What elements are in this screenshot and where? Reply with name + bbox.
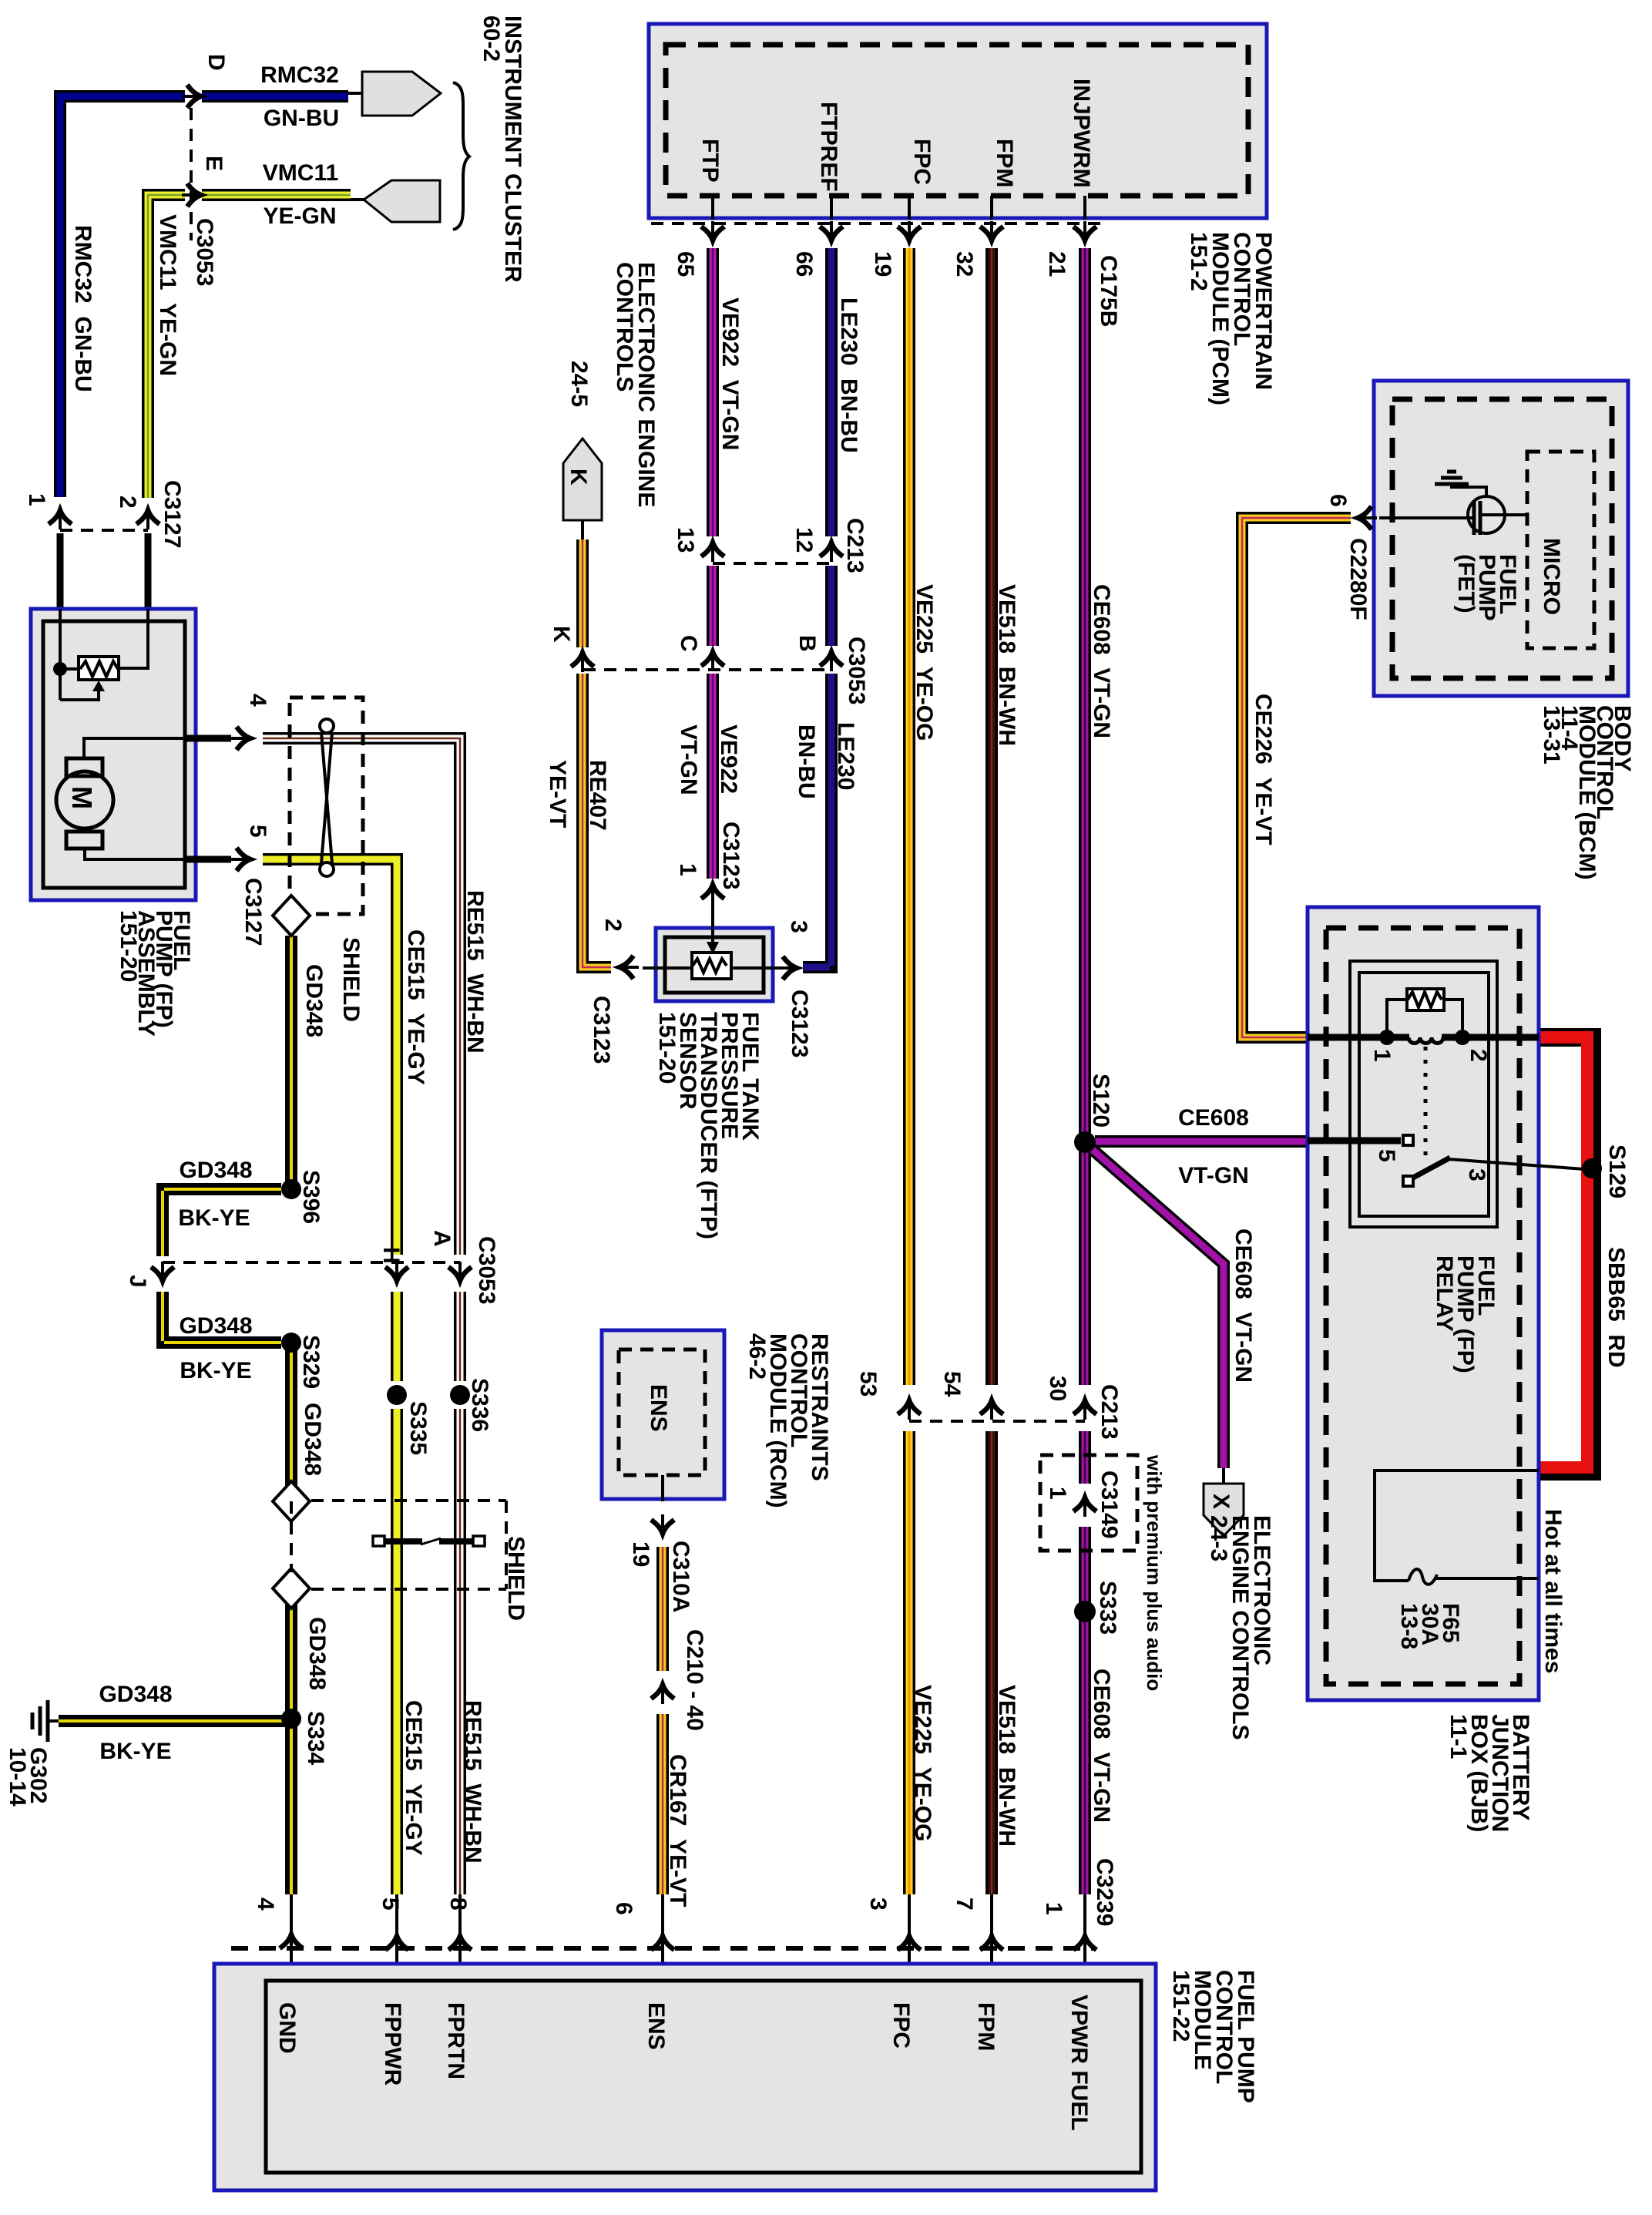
svg-text:C3053: C3053 — [192, 218, 217, 286]
svg-text:11-1: 11-1 — [1445, 1714, 1471, 1759]
svg-text:1: 1 — [1369, 1049, 1395, 1062]
svg-text:SHIELD: SHIELD — [338, 937, 364, 1022]
svg-text:MICRO: MICRO — [1539, 538, 1564, 615]
svg-text:C3239: C3239 — [1092, 1858, 1117, 1926]
svg-text:6: 6 — [611, 1902, 636, 1915]
svg-text:INJPWRM: INJPWRM — [1069, 79, 1094, 188]
svg-text:24-3: 24-3 — [1206, 1515, 1231, 1561]
svg-text:ENS: ENS — [646, 1384, 671, 1432]
svg-text:CE515 YE-GY: CE515 YE-GY — [401, 1700, 426, 1856]
svg-text:VPWR FUEL: VPWR FUEL — [1066, 1995, 1092, 2131]
svg-text:C3123: C3123 — [787, 990, 812, 1057]
svg-text:53: 53 — [855, 1371, 881, 1397]
svg-text:1: 1 — [1045, 1487, 1070, 1500]
svg-text:19: 19 — [870, 251, 895, 277]
svg-text:LE230 BN-BU: LE230 BN-BU — [836, 297, 861, 453]
svg-text:C3149: C3149 — [1096, 1471, 1122, 1538]
svg-text:151-20: 151-20 — [116, 910, 141, 982]
svg-text:CR167 YE-VT: CR167 YE-VT — [665, 1754, 690, 1907]
svg-text:FPM: FPM — [992, 139, 1017, 187]
svg-text:FTPREF: FTPREF — [816, 102, 841, 192]
svg-text:13: 13 — [673, 527, 698, 553]
svg-text:2: 2 — [600, 919, 626, 932]
svg-text:ENS: ENS — [643, 2002, 669, 2050]
svg-text:12: 12 — [791, 527, 817, 553]
svg-text:CE515 YE-GY: CE515 YE-GY — [403, 929, 428, 1085]
svg-text:C2280F: C2280F — [1345, 538, 1371, 620]
svg-text:32: 32 — [952, 251, 977, 277]
svg-text:2: 2 — [1466, 1049, 1491, 1062]
svg-text:S336: S336 — [467, 1378, 492, 1432]
svg-text:19: 19 — [628, 1541, 653, 1567]
svg-text:S120: S120 — [1088, 1074, 1113, 1128]
svg-text:30: 30 — [1045, 1376, 1070, 1401]
svg-text:FTP: FTP — [697, 139, 723, 183]
svg-text:S333: S333 — [1095, 1581, 1120, 1635]
svg-text:151-22: 151-22 — [1168, 1970, 1194, 2042]
svg-text:C3123: C3123 — [718, 822, 744, 889]
svg-text:4: 4 — [253, 1897, 278, 1911]
svg-text:VMC11 YE-GN: VMC11 YE-GN — [155, 214, 180, 376]
svg-text:SHIELD: SHIELD — [503, 1536, 529, 1621]
svg-text:7: 7 — [952, 1897, 977, 1911]
svg-text:151-20: 151-20 — [654, 1012, 680, 1084]
svg-text:2: 2 — [115, 496, 140, 509]
svg-text:GD348: GD348 — [300, 1403, 325, 1476]
svg-text:6: 6 — [1325, 494, 1351, 507]
svg-text:GD348: GD348 — [179, 1158, 252, 1183]
svg-text:VT-GN: VT-GN — [676, 724, 701, 795]
svg-text:1: 1 — [1041, 1902, 1066, 1915]
svg-text:GND: GND — [274, 2002, 300, 2054]
svg-text:VT-GN: VT-GN — [1178, 1163, 1249, 1188]
svg-text:S396: S396 — [298, 1170, 324, 1224]
svg-text:VE225 YE-OG: VE225 YE-OG — [910, 1685, 935, 1841]
svg-text:FPC: FPC — [888, 2002, 914, 2049]
svg-text:C210 - 40: C210 - 40 — [682, 1629, 707, 1731]
svg-text:4: 4 — [245, 694, 270, 707]
svg-text:M: M — [66, 786, 98, 809]
svg-text:D: D — [203, 54, 229, 71]
svg-text:VE922: VE922 — [716, 724, 741, 794]
svg-text:B: B — [794, 635, 820, 652]
svg-text:VE518 BN-WH: VE518 BN-WH — [994, 584, 1019, 746]
svg-text:S334: S334 — [303, 1711, 328, 1765]
svg-text:10-14: 10-14 — [5, 1747, 30, 1807]
svg-text:GD348: GD348 — [301, 964, 327, 1037]
svg-text:CE608 VT-GN: CE608 VT-GN — [1231, 1229, 1256, 1383]
svg-text:C3127: C3127 — [159, 480, 185, 548]
svg-text:S329: S329 — [298, 1335, 324, 1389]
svg-text:5: 5 — [245, 825, 270, 838]
svg-text:YE-VT: YE-VT — [545, 760, 570, 828]
svg-text:C310A: C310A — [668, 1541, 693, 1612]
svg-text:RMC32 GN-BU: RMC32 GN-BU — [70, 225, 96, 392]
svg-text:C3053: C3053 — [474, 1236, 499, 1304]
svg-text:21: 21 — [1044, 251, 1069, 277]
svg-text:SBB65 RD: SBB65 RD — [1603, 1247, 1629, 1368]
svg-text:LE230: LE230 — [833, 722, 858, 790]
svg-text:C3053: C3053 — [844, 637, 869, 704]
svg-text:CONTROLS: CONTROLS — [612, 262, 637, 392]
svg-text:RMC32: RMC32 — [260, 62, 339, 88]
svg-text:54: 54 — [939, 1371, 965, 1397]
svg-text:X: X — [1208, 1494, 1234, 1509]
svg-text:CE608 VT-GN: CE608 VT-GN — [1089, 584, 1114, 738]
svg-text:RELAY: RELAY — [1432, 1255, 1457, 1332]
svg-text:FPRTN: FPRTN — [443, 2002, 468, 2079]
svg-text:C3127: C3127 — [240, 878, 266, 946]
svg-text:C213: C213 — [842, 518, 868, 573]
svg-text:3: 3 — [865, 1897, 891, 1911]
svg-text:H: H — [378, 1247, 404, 1264]
svg-text:BK-YE: BK-YE — [178, 1205, 250, 1231]
svg-text:CE226 YE-VT: CE226 YE-VT — [1251, 694, 1276, 845]
svg-text:8: 8 — [445, 1897, 471, 1911]
svg-text:C: C — [676, 635, 701, 652]
svg-text:BN-BU: BN-BU — [794, 724, 819, 799]
svg-text:65: 65 — [673, 251, 698, 277]
svg-text:Hot at all times: Hot at all times — [1540, 1509, 1566, 1673]
svg-text:3: 3 — [1464, 1168, 1489, 1181]
svg-text:E: E — [201, 156, 227, 171]
svg-text:S335: S335 — [405, 1401, 431, 1455]
svg-text:VE225 YE-OG: VE225 YE-OG — [912, 584, 937, 741]
svg-text:A: A — [429, 1230, 455, 1247]
svg-text:13-8: 13-8 — [1396, 1603, 1422, 1649]
svg-text:K: K — [566, 469, 591, 486]
svg-text:GD348: GD348 — [179, 1313, 252, 1339]
svg-text:K: K — [549, 626, 574, 643]
svg-text:S129: S129 — [1604, 1144, 1630, 1198]
svg-text:1: 1 — [24, 493, 49, 506]
svg-text:with premium plus audio: with premium plus audio — [1143, 1454, 1166, 1691]
svg-text:VMC11: VMC11 — [263, 160, 338, 186]
svg-text:60-2: 60-2 — [478, 15, 504, 62]
svg-text:FPPWR: FPPWR — [380, 2002, 405, 2086]
svg-text:FPC: FPC — [909, 139, 935, 185]
svg-text:13-31: 13-31 — [1539, 705, 1564, 765]
svg-text:VE922 VT-GN: VE922 VT-GN — [717, 297, 743, 450]
svg-text:1: 1 — [675, 863, 700, 876]
svg-text:CE608: CE608 — [1178, 1105, 1249, 1131]
svg-text:C175B: C175B — [1096, 255, 1121, 327]
svg-text:C3123: C3123 — [589, 996, 614, 1064]
svg-text:C213: C213 — [1096, 1384, 1122, 1440]
svg-text:BK-YE: BK-YE — [180, 1358, 251, 1383]
svg-text:FPM: FPM — [973, 2002, 999, 2051]
svg-text:GD348: GD348 — [99, 1682, 172, 1707]
svg-text:YE-GN: YE-GN — [263, 203, 336, 229]
svg-text:GN-BU: GN-BU — [264, 106, 339, 131]
svg-text:66: 66 — [791, 251, 817, 277]
svg-text:24-5: 24-5 — [566, 361, 592, 407]
svg-text:151-2: 151-2 — [1186, 232, 1211, 291]
svg-text:46-2: 46-2 — [744, 1333, 770, 1380]
svg-text:CE608 VT-GN: CE608 VT-GN — [1089, 1669, 1114, 1823]
svg-text:J: J — [125, 1275, 150, 1288]
svg-text:RE407: RE407 — [585, 760, 610, 831]
svg-text:5: 5 — [1374, 1149, 1399, 1162]
svg-text:RE515 WH-BN: RE515 WH-BN — [462, 890, 488, 1054]
svg-text:BK-YE: BK-YE — [99, 1739, 171, 1764]
svg-text:(FET): (FET) — [1453, 554, 1479, 613]
svg-text:3: 3 — [786, 920, 811, 933]
svg-text:RE515 WH-BN: RE515 WH-BN — [460, 1700, 485, 1864]
svg-text:VE518 BN-WH: VE518 BN-WH — [994, 1685, 1019, 1847]
svg-text:GD348: GD348 — [304, 1617, 330, 1690]
svg-text:5: 5 — [378, 1897, 403, 1911]
